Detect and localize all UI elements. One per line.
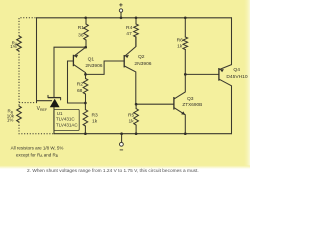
node R1 top — [84, 16, 87, 19]
node R1 bottom / Q1 emitter — [84, 46, 87, 49]
svg-text:R4: R4 — [126, 25, 133, 31]
node ground terminal — [120, 132, 123, 135]
svg-text:36: 36 — [78, 32, 84, 38]
node R3 bottom — [84, 132, 87, 135]
node R6 top — [184, 16, 187, 19]
wire R1 bottom to U1 cathode — [54, 47, 86, 97]
transistor Q1 2N3906 — [72, 55, 74, 66]
svg-text:Q2: Q2 — [138, 54, 145, 60]
svg-text:R5: R5 — [128, 112, 135, 118]
node output terminal + — [120, 12, 122, 17]
transistor Q2 2N3906 — [123, 55, 125, 67]
svg-text:R3: R3 — [92, 112, 99, 118]
resistor R5 1k — [135, 104, 137, 134]
svg-text:68: 68 — [77, 88, 83, 94]
resistor R1 36 — [85, 18, 87, 47]
op-amp U1 TLV431 shunt regulator symbol — [50, 99, 60, 107]
resistor R2 68 — [85, 74, 87, 103]
svg-text:R6: R6 — [177, 37, 184, 43]
svg-text:All resistors are 1/8 W, 5%: All resistors are 1/8 W, 5% — [11, 146, 64, 151]
wire dashed RA bottom to RB top — [18, 51, 20, 106]
wire Q1 collector to Q2 base link — [86, 61, 125, 74]
resistor R3 1k — [84, 103, 86, 134]
svg-text:R1: R1 — [78, 25, 85, 31]
transistor Q3 ZTX690B — [173, 97, 175, 110]
svg-text:TLV431AC: TLV431AC — [56, 122, 78, 127]
svg-text:1%: 1% — [7, 118, 14, 123]
wire U1 anode to bottom rail — [53, 107, 55, 134]
wire dashed RB bottom to ground rail — [19, 122, 53, 134]
svg-text:2. When shunt voltages range f: 2. When shunt voltages range from 1.24 V… — [27, 168, 199, 174]
svg-text:2N3906: 2N3906 — [85, 63, 102, 69]
node ground terminal - — [121, 134, 123, 143]
svg-text:D45VH10: D45VH10 — [226, 74, 247, 80]
svg-text:1%: 1% — [10, 44, 17, 49]
node Q1 collector / R2 top — [84, 73, 87, 76]
node output — [120, 16, 123, 19]
svg-text:1k: 1k — [129, 118, 135, 124]
transistor Q4 D45VH10 — [218, 68, 220, 81]
U1 label box — [54, 109, 79, 130]
svg-text:Q4: Q4 — [233, 67, 240, 73]
svg-text:47: 47 — [126, 31, 132, 37]
node Q3 emitter rail — [184, 132, 187, 135]
wire U1 ref lead — [37, 100, 52, 102]
node R6 bottom / Q4 base — [184, 73, 187, 76]
resistor RA 1% — [17, 36, 22, 51]
svg-text:Q1: Q1 — [88, 57, 95, 63]
node Q2 collector / R5 top — [135, 103, 138, 106]
wire dashed RA top lead to rail corner — [19, 18, 36, 36]
node R5 bottom — [135, 132, 138, 135]
wire Q1 base run — [68, 61, 86, 103]
wire top rail — [37, 17, 232, 19]
node R2 bottom / R3 top — [84, 102, 87, 105]
wire Q3 base run — [136, 103, 174, 105]
svg-text:1k: 1k — [92, 118, 98, 124]
wire dashed divider tap to VREF node — [19, 102, 36, 104]
resistor RB 10k 1% — [17, 106, 22, 122]
wire right vertical (rail to Q4 emitter) — [231, 18, 233, 65]
wire Q4 base run — [185, 73, 219, 75]
svg-text:TLV431C: TLV431C — [56, 117, 75, 122]
svg-text:2N3906: 2N3906 — [134, 61, 151, 67]
svg-text:ZTX690B: ZTX690B — [182, 102, 202, 107]
resistor R6 1k — [184, 18, 186, 75]
svg-text:Q3: Q3 — [187, 96, 194, 102]
svg-text:1k: 1k — [177, 43, 183, 49]
node R4 top — [135, 16, 138, 19]
svg-text:R2: R2 — [77, 81, 84, 87]
wire left REF vertical — [36, 18, 38, 103]
resistor R4 47 — [135, 18, 137, 47]
svg-text:U1: U1 — [57, 111, 63, 116]
wire bottom rail — [54, 133, 232, 135]
